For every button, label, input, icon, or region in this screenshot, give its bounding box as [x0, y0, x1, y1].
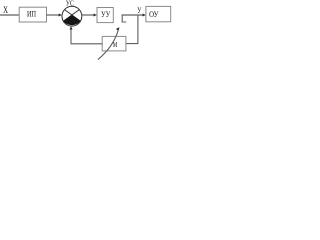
svg-text:ОУ: ОУ — [149, 10, 159, 19]
svg-text:ИП: ИП — [27, 10, 36, 19]
svg-text:X: X — [3, 5, 8, 15]
svg-text:У: У — [137, 6, 141, 15]
svg-text:УУ: УУ — [101, 10, 111, 19]
